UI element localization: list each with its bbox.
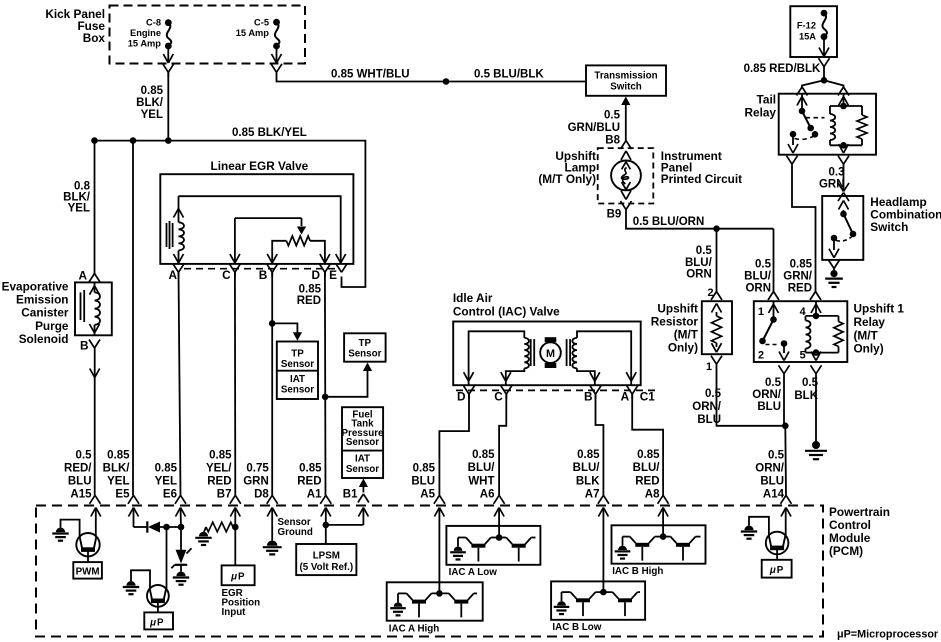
wire IAC D to PCM A5 (434, 394, 469, 504)
svg-text:M: M (546, 348, 555, 360)
svg-text:A: A (168, 268, 177, 282)
svg-text:A8: A8 (645, 489, 660, 501)
svg-text:2: 2 (758, 349, 764, 361)
wire IAC A to PCM A8 (632, 394, 668, 504)
microprocessor driver transistor (123, 527, 169, 612)
IAC B high driver (612, 525, 706, 577)
wire evap B to PCM A15 (90, 348, 101, 504)
PCM pin A14 arrow (781, 508, 791, 536)
svg-text:YEL/: YEL/ (206, 462, 232, 474)
node C (IAC) (494, 386, 512, 404)
tail relay box (779, 94, 876, 155)
PWM box (73, 562, 102, 579)
IAC A low driver (446, 526, 540, 578)
node D (IAC) (457, 386, 475, 404)
svg-text:Upshift 1: Upshift 1 (854, 302, 905, 316)
svg-text:BLU/: BLU/ (573, 462, 601, 474)
wire C-5 to transmission switch (277, 72, 587, 84)
svg-text:0.5: 0.5 (76, 449, 93, 461)
svg-text:0.5: 0.5 (765, 377, 782, 389)
svg-text:E6: E6 (163, 488, 177, 500)
svg-text:P: P (777, 565, 784, 576)
svg-text:Control (IAC) Valve: Control (IAC) Valve (453, 304, 560, 318)
svg-text:Sensor: Sensor (348, 348, 381, 359)
label 0.5 BLK (794, 377, 818, 402)
label 0.85 RED (EGR D) (297, 283, 322, 307)
svg-text:P: P (238, 571, 245, 582)
svg-text:A14: A14 (763, 488, 785, 500)
label 0.5 BLU/BLK (474, 69, 544, 81)
wire bus to PCM E5 (128, 141, 139, 504)
node B (EGR) (259, 264, 278, 282)
node relay out 2 (779, 365, 790, 374)
svg-text:Sensor: Sensor (346, 437, 379, 448)
svg-text:F-12: F-12 (797, 21, 816, 31)
svg-text:B1: B1 (343, 489, 358, 501)
svg-text:0.85 BLK/YEL: 0.85 BLK/YEL (232, 127, 307, 139)
tail relay label (745, 93, 777, 120)
svg-text:BLU/: BLU/ (468, 462, 496, 474)
fuse F-12 15A (790, 6, 837, 66)
PCM pin A5 arrow (434, 508, 444, 594)
svg-text:TP: TP (359, 338, 372, 349)
svg-text:RED: RED (788, 282, 812, 294)
svg-text:(5 Volt Ref.): (5 Volt Ref.) (299, 562, 353, 573)
node A C1 (IAC) (621, 386, 656, 404)
label 0.5 BLU/ORN (resistor) (685, 245, 713, 281)
headlamp switch ground (825, 260, 843, 287)
wire fuel tank sensor to B1 (343, 479, 369, 503)
svg-text:IAC A Low: IAC A Low (449, 567, 498, 578)
TP sensor box (344, 333, 386, 361)
svg-text:A7: A7 (585, 489, 600, 501)
svg-text:Only): Only) (854, 342, 884, 356)
svg-text:Idle Air: Idle Air (453, 291, 493, 305)
node relay out 5 (811, 365, 822, 374)
svg-text:P: P (157, 617, 164, 628)
svg-text:Engine: Engine (130, 28, 161, 38)
wire resistor to A14 junction (717, 364, 786, 426)
svg-text:BLK: BLK (576, 475, 600, 487)
svg-text:Switch: Switch (610, 81, 642, 92)
wire 0.3 GRN to headlamp switch (838, 164, 849, 201)
svg-text:A5: A5 (420, 488, 435, 500)
label 0.85 BLU A5 (411, 462, 435, 500)
svg-text:Control: Control (829, 518, 871, 532)
svg-text:IAC A High: IAC A High (389, 623, 439, 634)
svg-text:D8: D8 (254, 488, 269, 500)
LPSM box (296, 544, 356, 575)
label 0.85 YEL E6 (155, 462, 178, 500)
upshift lamp label (538, 149, 596, 186)
PWM driver transistor (52, 520, 99, 563)
svg-text:A: A (621, 390, 630, 404)
svg-text:μ: μ (149, 617, 156, 628)
svg-text:0.5 BLU/BLK: 0.5 BLU/BLK (474, 69, 544, 81)
svg-text:0.85: 0.85 (209, 449, 232, 461)
svg-text:RED: RED (297, 475, 321, 487)
wire bus to evap solenoid (94, 141, 96, 274)
svg-text:0.85: 0.85 (577, 449, 600, 461)
tail relay switch (788, 94, 825, 153)
svg-text:BLU/: BLU/ (744, 271, 772, 283)
junction dots on bus (91, 137, 171, 144)
svg-text:0.85: 0.85 (472, 449, 495, 461)
svg-text:B: B (80, 339, 89, 353)
svg-text:2: 2 (707, 287, 713, 299)
svg-text:0.85: 0.85 (141, 85, 164, 97)
label 0.5 ORN/BLU (relay 2) (752, 377, 782, 413)
node 1 (resistor) (706, 356, 722, 373)
fuse C-5 15 Amp (236, 18, 282, 73)
svg-text:0.5: 0.5 (696, 245, 713, 257)
svg-text:E5: E5 (115, 488, 130, 500)
zener diode (E6) (171, 527, 191, 585)
TP sensor + IAT sensor box (277, 342, 318, 400)
svg-text:15A: 15A (799, 32, 816, 42)
PCM pin B7 arrow (230, 508, 240, 528)
svg-text:YEL: YEL (107, 475, 129, 487)
svg-text:0.85 RED/BLK: 0.85 RED/BLK (744, 63, 821, 75)
svg-text:B9: B9 (607, 208, 622, 220)
svg-text:0.85: 0.85 (299, 462, 322, 474)
svg-text:IAT: IAT (290, 374, 305, 385)
svg-text:ORN: ORN (745, 282, 771, 294)
svg-text:Upshift: Upshift (657, 302, 698, 316)
IAC winding B (567, 331, 637, 385)
svg-text:BLU: BLU (697, 414, 721, 426)
svg-text:TP: TP (291, 348, 304, 359)
label 0.85 YEL/RED B7 (206, 449, 232, 500)
svg-text:C1: C1 (640, 390, 656, 404)
tail relay coil (830, 94, 867, 153)
svg-text:BLU: BLU (760, 475, 784, 487)
svg-text:A: A (78, 268, 87, 282)
svg-text:IAT: IAT (355, 453, 370, 464)
svg-text:ORN/: ORN/ (752, 389, 782, 401)
svg-text:Sensor: Sensor (281, 359, 314, 370)
LPSM junction (323, 522, 364, 529)
svg-text:0.5: 0.5 (604, 109, 621, 121)
svg-text:YEL: YEL (141, 109, 163, 121)
svg-text:Module: Module (829, 531, 871, 545)
svg-text:0.85: 0.85 (790, 259, 813, 271)
headlamp combination switch label (870, 195, 941, 234)
svg-text:RED: RED (297, 295, 321, 307)
svg-text:0.85: 0.85 (299, 283, 322, 295)
IAC winding A (464, 331, 535, 385)
powertrain control module label (829, 505, 890, 558)
svg-text:RED/: RED/ (64, 462, 92, 474)
A14 driver transistor (741, 517, 789, 560)
svg-text:Sensor: Sensor (346, 464, 379, 475)
PCM pin E5 arrow (129, 508, 139, 528)
evaporative emission canister purge solenoid label (2, 280, 69, 346)
wire tail relay to upshift relay 4 (792, 164, 821, 300)
svg-text:0.85: 0.85 (413, 462, 436, 474)
svg-text:IAC B High: IAC B High (612, 566, 663, 577)
svg-text:C-5: C-5 (254, 18, 269, 28)
svg-text:Relay: Relay (854, 315, 886, 329)
svg-text:μ: μ (230, 571, 237, 582)
idle air control valve box (453, 322, 641, 386)
svg-text:Sensor: Sensor (281, 385, 314, 396)
uP box (driver) (144, 612, 173, 629)
wire IAC C to PCM A6 (494, 394, 507, 504)
EGR inner rail (179, 196, 346, 264)
svg-text:B7: B7 (217, 488, 232, 500)
node tail relay out left (787, 156, 798, 165)
wire EGR B to PCM D8 (267, 272, 302, 504)
PCM pin B1 arrow (358, 508, 368, 525)
upshift resistor label (651, 302, 699, 355)
label 0.5 RED/BLU A15 (64, 449, 92, 500)
PCM pin E6 arrow (176, 508, 186, 528)
label 0.75 GRN D8 (243, 462, 269, 500)
node C (EGR) (222, 264, 240, 282)
svg-text:BLU: BLU (68, 475, 92, 487)
label 0.8 BLK/YEL (63, 181, 91, 215)
PCM pin A7 arrow (598, 508, 608, 593)
label 0.85 BLK/YEL E5 (103, 449, 131, 500)
fuse C-8 Engine 15 Amp (128, 18, 174, 78)
microprocessor note (837, 628, 939, 640)
svg-text:(M/T: (M/T (674, 328, 699, 342)
svg-text:μ: μ (769, 565, 776, 576)
wire C-8 fuse down (167, 72, 169, 140)
svg-text:B: B (259, 268, 268, 282)
svg-text:Box: Box (83, 31, 106, 45)
svg-text:D: D (311, 268, 320, 282)
svg-text:Emission: Emission (16, 293, 68, 307)
wire relay 5 to ground (805, 374, 827, 459)
label 0.85 RED/BLK (744, 63, 821, 75)
IAC connector dashed strip (456, 389, 655, 391)
svg-text:BLK/: BLK/ (103, 462, 131, 474)
label 0.85 WHT/BLU (331, 69, 410, 81)
powertrain control module border (36, 506, 823, 637)
svg-text:B: B (584, 390, 593, 404)
svg-text:Printed Circuit: Printed Circuit (661, 172, 742, 186)
svg-text:A6: A6 (480, 489, 495, 501)
svg-text:BLK/: BLK/ (136, 97, 164, 109)
diode (E5) (134, 521, 185, 532)
svg-text:BLU: BLU (411, 475, 435, 487)
svg-text:Solenoid: Solenoid (19, 332, 69, 346)
label 0.85 BLU/BLK A7 (573, 449, 601, 501)
node B9 (607, 201, 632, 220)
uP box (EGR position) (222, 565, 261, 618)
idle air control valve title (453, 291, 560, 318)
svg-text:0.3: 0.3 (829, 167, 845, 179)
svg-text:Ground: Ground (278, 527, 313, 538)
svg-text:(PCM): (PCM) (829, 544, 863, 558)
svg-text:0.5: 0.5 (755, 259, 772, 271)
node D (EGR) (311, 264, 330, 282)
svg-text:1: 1 (706, 361, 712, 373)
label 0.5 BLU/ORN (relay 1) (744, 259, 772, 295)
label 0.85 BLU/WHT A6 (468, 449, 496, 501)
svg-text:GRN: GRN (243, 475, 269, 487)
label 0.85 BLU/RED A8 (633, 449, 661, 501)
node B (evap) (80, 339, 100, 353)
svg-text:C-8: C-8 (146, 18, 161, 28)
instrument panel printed circuit label (661, 149, 742, 186)
label 0.5 ORN/BLU A14 (755, 449, 785, 500)
svg-text:15 Amp: 15 Amp (236, 28, 270, 38)
svg-text:0.85: 0.85 (637, 449, 660, 461)
upshift 1 relay switch (758, 301, 806, 361)
node A (EGR) (168, 264, 184, 282)
svg-text:Relay: Relay (745, 105, 777, 119)
upshift 1 relay label (854, 302, 905, 356)
svg-text:PWM: PWM (76, 567, 100, 578)
wire IAC B to PCM A7 (596, 394, 609, 504)
svg-text:Only): Only) (668, 341, 698, 355)
svg-text:ORN: ORN (686, 269, 712, 281)
svg-text:0.85 WHT/BLU: 0.85 WHT/BLU (331, 69, 410, 81)
svg-text:C: C (222, 268, 231, 282)
EGR solenoid coil (167, 196, 185, 264)
svg-text:D: D (457, 390, 466, 404)
svg-text:E: E (329, 268, 337, 282)
svg-text:LPSM: LPSM (313, 550, 340, 561)
upshift 1 relay box (754, 301, 848, 362)
svg-text:0.85: 0.85 (107, 449, 130, 461)
kick panel fuse box label (45, 7, 105, 45)
wire B9 0.5 BLU/ORN (626, 210, 779, 300)
svg-text:RED: RED (207, 475, 231, 487)
svg-text:Resistor: Resistor (651, 315, 699, 329)
fuse box (dashed) (110, 6, 306, 64)
svg-text:IAC B Low: IAC B Low (552, 622, 601, 633)
svg-text:BLK: BLK (794, 390, 818, 402)
headlamp combination switch (822, 196, 863, 260)
svg-text:(M/T: (M/T (854, 328, 879, 342)
IAC A high driver (387, 582, 483, 634)
svg-text:WHT: WHT (468, 475, 494, 487)
svg-text:0.5: 0.5 (705, 388, 722, 400)
svg-text:Linear EGR Valve: Linear EGR Valve (211, 159, 309, 173)
svg-text:BLU/: BLU/ (633, 462, 661, 474)
wire F-12 to tail relay (797, 67, 850, 96)
transmission switch box (586, 65, 666, 95)
svg-text:YEL: YEL (155, 475, 177, 487)
evap purge solenoid (75, 282, 112, 335)
svg-text:1: 1 (758, 306, 764, 318)
fuel tank pressure sensor + IAT sensor box (342, 407, 384, 478)
wire junction to upshift resistor (707, 229, 722, 300)
svg-text:B8: B8 (605, 134, 620, 146)
svg-text:μP=Microprocessor: μP=Microprocessor (837, 628, 939, 640)
svg-text:Purge: Purge (35, 319, 69, 333)
svg-text:(M/T Only): (M/T Only) (538, 172, 596, 186)
upshift lamp (611, 151, 641, 200)
instrument panel dashed box (598, 148, 654, 203)
linear EGR valve box (160, 174, 353, 264)
svg-text:0.85: 0.85 (155, 462, 178, 474)
svg-text:BLU: BLU (757, 401, 781, 413)
wire EGR D to PCM A1 (320, 272, 372, 504)
svg-text:BLU/: BLU/ (685, 257, 713, 269)
EGR position input resistor (195, 522, 238, 565)
wire EGR A to PCM E6 (175, 272, 186, 504)
PCM pin A15 arrow (91, 508, 101, 538)
svg-text:0.5: 0.5 (768, 449, 785, 461)
wire relay 2 to PCM A14 (781, 374, 792, 504)
label 0.85 RED A1 (297, 462, 322, 500)
label 0.3 GRN (819, 167, 845, 191)
linear EGR valve title (211, 159, 309, 173)
upshift resistor (702, 301, 732, 354)
IAC motor M (540, 337, 561, 368)
svg-text:Input: Input (222, 607, 247, 618)
node A (evap) (78, 268, 100, 282)
svg-text:GRN/BLU: GRN/BLU (568, 122, 620, 134)
label 0.5 ORN/BLU (resistor out) (692, 388, 722, 426)
svg-text:Evaporative: Evaporative (2, 280, 69, 294)
IAC B low driver (551, 581, 645, 632)
svg-text:Switch: Switch (870, 220, 908, 234)
sensor ground (263, 517, 313, 554)
PCM pin A1 arrow (321, 508, 331, 545)
svg-text:A1: A1 (307, 488, 322, 500)
PCM pin D8 arrow (267, 508, 277, 541)
svg-text:Canister: Canister (21, 306, 69, 320)
wire EGR C to PCM B7 (230, 272, 241, 504)
uP box (A14) (762, 560, 792, 578)
svg-text:GRN/: GRN/ (783, 271, 813, 283)
node B (IAC) (584, 386, 601, 404)
svg-text:0.75: 0.75 (246, 462, 269, 474)
svg-text:0.5 BLU/ORN: 0.5 BLU/ORN (633, 216, 705, 228)
wire 0.85 BLK/YEL bus (95, 127, 366, 287)
EGR potentiometer (230, 218, 330, 264)
svg-text:Powertrain: Powertrain (829, 505, 890, 519)
svg-text:C: C (494, 390, 503, 404)
wire transmission switch B8 (568, 97, 632, 150)
svg-text:YEL: YEL (68, 203, 90, 215)
svg-text:15 Amp: 15 Amp (128, 38, 162, 48)
node E (EGR) (329, 264, 347, 282)
label 0.85 GRN/RED (783, 259, 813, 295)
label 0.85 BLK/YEL vertical (136, 85, 164, 121)
svg-text:Transmission: Transmission (594, 70, 657, 81)
svg-text:ORN/: ORN/ (692, 401, 722, 413)
EGR connector dashed strip (184, 268, 340, 270)
svg-text:RED: RED (635, 475, 659, 487)
upshift 1 relay coil (806, 301, 844, 360)
svg-text:A15: A15 (70, 488, 92, 500)
node tail relay out right (838, 156, 849, 165)
svg-text:ORN/: ORN/ (755, 462, 785, 474)
PCM pin A6 arrow (494, 508, 504, 538)
PCM pin A8 arrow (658, 508, 668, 537)
